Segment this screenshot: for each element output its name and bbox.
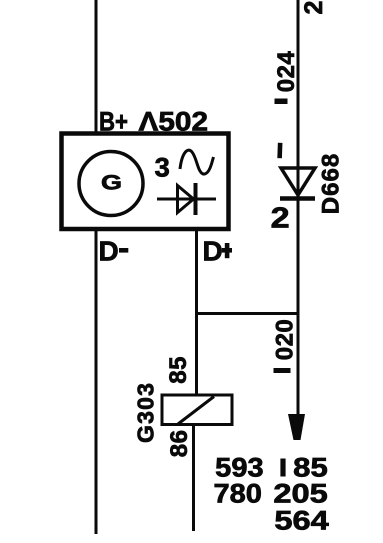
svg-text:3: 3: [155, 153, 170, 183]
svg-text:D: D: [99, 236, 119, 267]
svg-text:G: G: [101, 170, 122, 194]
svg-text:2: 2: [300, 1, 328, 15]
svg-text:020: 020: [272, 319, 299, 361]
svg-text:85: 85: [165, 356, 192, 384]
svg-text:205: 205: [273, 478, 327, 508]
svg-text:G303: G303: [133, 382, 159, 443]
svg-text:564: 564: [274, 505, 328, 535]
svg-text:024: 024: [273, 51, 300, 93]
svg-text:D: D: [203, 236, 223, 267]
svg-text:2: 2: [271, 203, 290, 235]
svg-text:D668: D668: [317, 153, 344, 214]
svg-text:Λ502: Λ502: [139, 107, 209, 137]
svg-text:86: 86: [166, 430, 193, 458]
svg-text:B+: B+: [99, 107, 128, 137]
svg-text:780: 780: [214, 478, 262, 508]
